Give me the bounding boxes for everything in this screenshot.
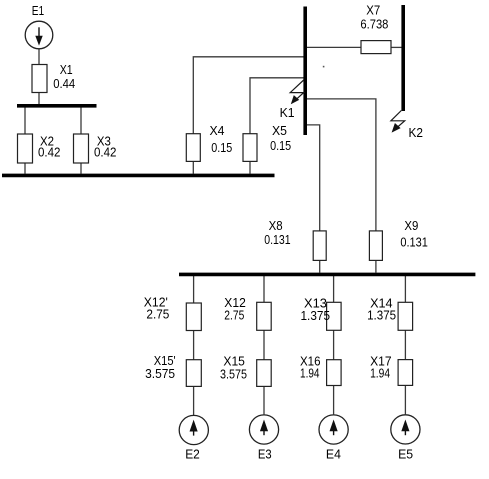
svg-text:3.575: 3.575: [145, 366, 175, 381]
svg-text:X8: X8: [269, 218, 283, 233]
svg-text:E5: E5: [398, 447, 413, 462]
svg-text:0.15: 0.15: [211, 140, 232, 155]
svg-text:E4: E4: [326, 447, 341, 462]
svg-text:1.375: 1.375: [367, 308, 396, 323]
svg-text:X4: X4: [210, 123, 225, 138]
svg-text:E2: E2: [185, 447, 200, 462]
svg-text:0.131: 0.131: [264, 232, 290, 247]
svg-text:3.575: 3.575: [220, 367, 247, 382]
svg-text:1.94: 1.94: [300, 366, 320, 381]
svg-text:0.42: 0.42: [38, 144, 61, 159]
svg-text:0.15: 0.15: [270, 138, 291, 153]
svg-text:2.75: 2.75: [146, 307, 169, 322]
svg-text:0.131: 0.131: [400, 235, 428, 250]
svg-text:0.44: 0.44: [53, 76, 75, 91]
svg-text:1.94: 1.94: [370, 366, 390, 381]
svg-text:E3: E3: [258, 447, 272, 462]
svg-text:X9: X9: [404, 218, 418, 233]
svg-text:X1: X1: [60, 62, 73, 77]
svg-text:K2: K2: [409, 125, 424, 140]
svg-text:6.738: 6.738: [360, 17, 388, 32]
svg-text:2.75: 2.75: [224, 308, 244, 323]
svg-text:X5: X5: [272, 123, 287, 138]
svg-text:1.375: 1.375: [301, 308, 331, 323]
svg-text:X7: X7: [366, 3, 380, 18]
svg-text:E1: E1: [32, 3, 45, 18]
svg-text:0.42: 0.42: [94, 144, 117, 159]
svg-text:K1: K1: [280, 105, 295, 120]
